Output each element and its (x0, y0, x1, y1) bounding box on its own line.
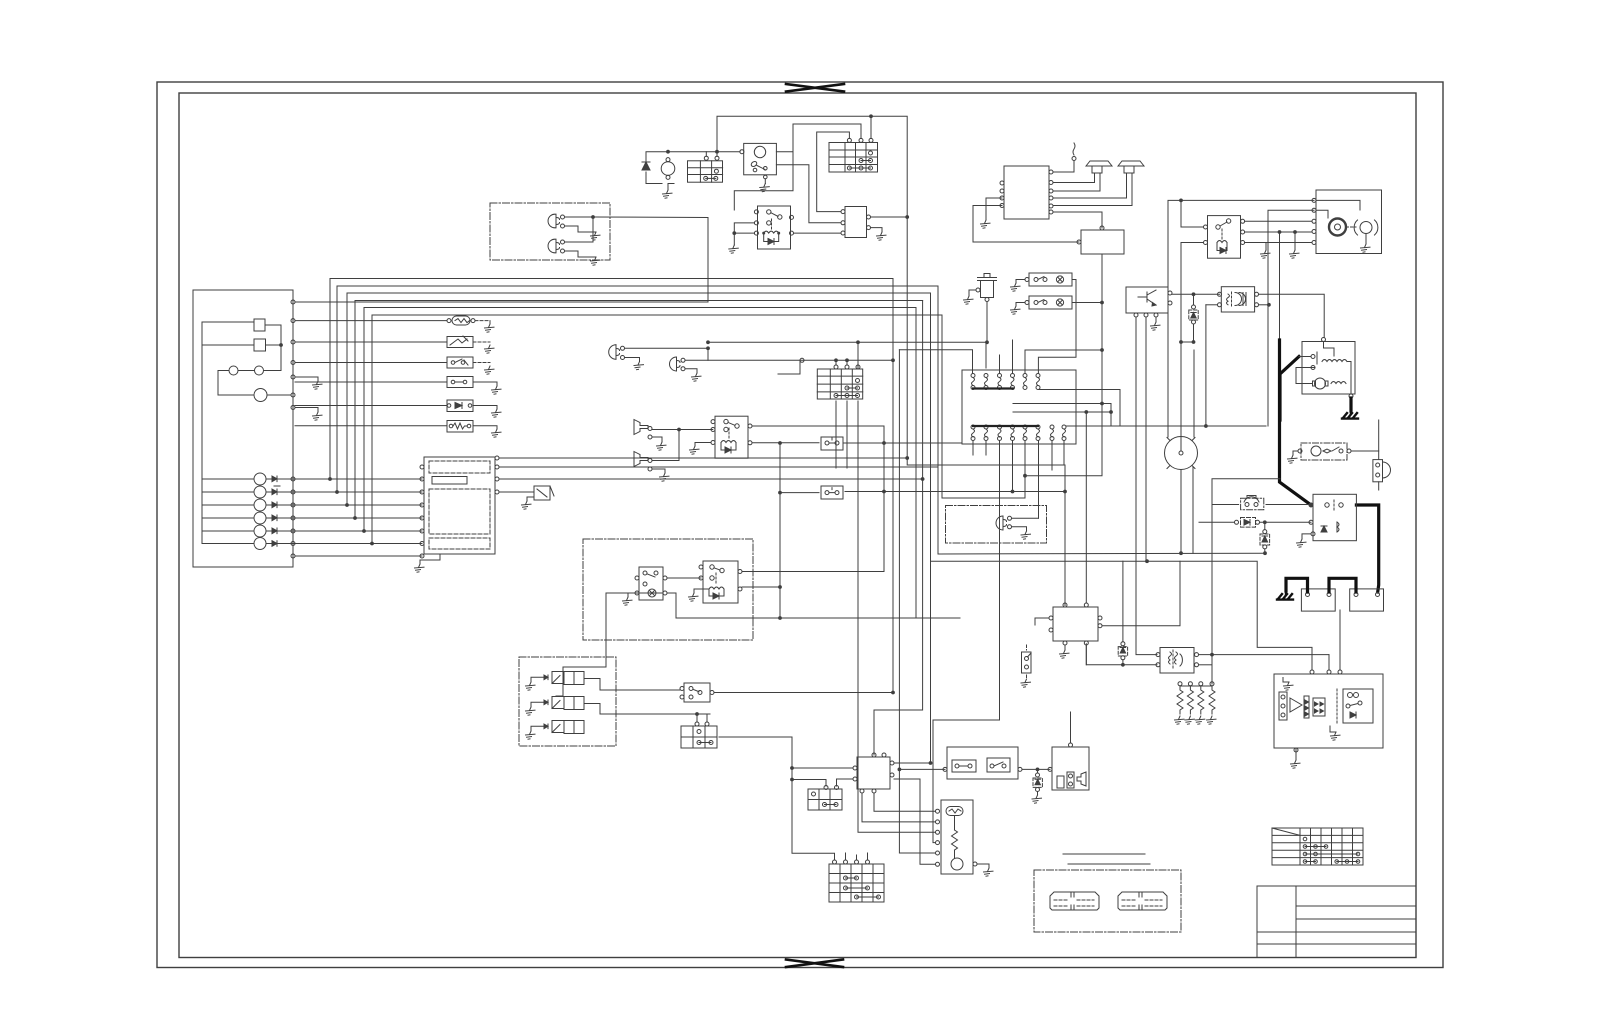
wire relay B out2 (752, 442, 819, 444)
wire trunk mid3 (930, 293, 932, 763)
wire fuse pin1 drop (705, 152, 707, 157)
wire bundle verticals (330, 279, 372, 544)
spark diode vertical (1118, 561, 1127, 665)
ground tail lamp (1021, 531, 1031, 539)
node flasher (779, 617, 782, 620)
wire CDI2 right (1102, 561, 1180, 626)
wire relay C pin left2 (1181, 243, 1204, 451)
fuse box A (688, 156, 723, 182)
wire tail lamp gnd (1012, 527, 1027, 531)
wire CDI A out1 (871, 216, 908, 218)
wire L2 drop (707, 348, 709, 360)
ground H1 (657, 442, 667, 450)
oil switch (1022, 645, 1032, 679)
wire switch out 1 (776, 151, 793, 153)
motor M1 (661, 162, 675, 176)
node pin5 link (1101, 349, 1104, 352)
solenoid unit 3 (531, 721, 584, 734)
connector plug 2 (1118, 892, 1167, 910)
diode D1 (642, 162, 650, 170)
wire horn button right (1266, 504, 1311, 506)
wire magneto pin5 link (1025, 350, 1102, 374)
fuse B2 (821, 486, 843, 499)
wire coil unit gnd (977, 864, 989, 868)
ground L2 (692, 373, 702, 381)
wire CDI B pin2 (837, 779, 854, 786)
wire conn E pin1 (835, 360, 837, 365)
wire magneto drop1 (857, 342, 859, 368)
fuse legend table (1272, 828, 1363, 865)
wire fuse B2 feed (780, 492, 819, 494)
ground CDI2 (1060, 650, 1070, 658)
node L2 join (892, 359, 895, 362)
wire L2 feed (685, 359, 893, 361)
warning lamp 1 (254, 473, 266, 485)
ground S1 (485, 366, 495, 374)
ignition coil box (1156, 648, 1199, 674)
warning lamp 5 (254, 525, 266, 537)
speaker SP2 (1118, 161, 1144, 206)
wire L2 gnd (685, 369, 697, 373)
ground relay B (690, 446, 700, 454)
wire tail long (938, 286, 1265, 554)
headlight box (490, 203, 610, 260)
node coil out (1211, 653, 1214, 656)
ground R1 (485, 345, 495, 353)
wire strip1 out (1038, 280, 1076, 374)
wire F2 right (473, 382, 497, 386)
wire unit gnd (1295, 748, 1297, 760)
wire meter lamp right (267, 394, 291, 396)
wire starter relay gnd (1293, 451, 1298, 455)
wire switch out 2 to CDI A pin2 (776, 165, 841, 223)
wire resistor feed (1211, 655, 1213, 684)
node fsw out (1036, 768, 1039, 771)
wire lamp feeds left (202, 479, 254, 544)
warning lamp 4 (254, 512, 266, 524)
wire CDI2 gnd (1064, 645, 1066, 650)
temp gauge square (254, 339, 266, 351)
wire solenoid out2 (584, 704, 616, 715)
wire magneto stub4 (1012, 340, 1014, 374)
meter panel box (193, 290, 293, 567)
ground solenoid 2 (526, 707, 536, 715)
battery (1350, 589, 1384, 611)
wire meter gnd1 (295, 377, 318, 381)
alternator box (1296, 338, 1355, 399)
wire cdi2 top vertical (1085, 412, 1087, 603)
ground CDI A (877, 232, 887, 240)
fuse F2 (447, 377, 473, 388)
wire gauge link (265, 325, 281, 370)
node gauge (280, 344, 283, 347)
wire tail lamp feed (1012, 517, 1039, 519)
node CDI B out (929, 762, 932, 765)
thick battery ground (1286, 578, 1308, 592)
wire strip2 out (1072, 302, 1102, 304)
wire plug diode link (1181, 341, 1194, 343)
magneto coil pins top row (971, 374, 1040, 390)
wire connector B drop (870, 116, 872, 138)
node cable top (1278, 231, 1281, 234)
ground resistor 2 (1185, 716, 1195, 724)
magneto coil pins bottom row (971, 425, 1066, 441)
wire strip1 gnd (1016, 280, 1025, 284)
resistor box R2 (447, 421, 473, 433)
wire F1 left (295, 320, 447, 322)
ground headlight HI (591, 232, 601, 240)
ground buzzer (522, 501, 532, 509)
ground meter 1 (313, 381, 323, 389)
ground oil sensor (964, 296, 974, 304)
cut mark top (786, 84, 844, 92)
resistor bank (1177, 682, 1215, 714)
ground radio (981, 220, 991, 228)
wire H2 gnd (652, 469, 665, 473)
meter lamp big (254, 389, 267, 402)
solenoid dashed box (519, 657, 616, 746)
wire L1 gnd (625, 358, 640, 362)
battery fuse box (1301, 589, 1335, 611)
wire D2 left (295, 405, 447, 407)
magneto connector box (962, 370, 1076, 444)
connector dashed box (1034, 870, 1181, 932)
node oil feed (857, 341, 860, 344)
node combo out3 (921, 478, 924, 481)
ground battery thick (1277, 592, 1293, 600)
pilot lamp pair (229, 366, 238, 375)
wire motor bottom (668, 184, 674, 191)
wire igniter out1 (1172, 293, 1220, 295)
wire ts relay out1 (742, 571, 884, 573)
radio unit (1000, 166, 1053, 219)
node branch (779, 442, 782, 445)
node combo out1 (906, 457, 909, 460)
warning lamp 3 (254, 499, 266, 511)
node regrect feed (791, 778, 794, 781)
wire F1 right dashed (475, 320, 490, 322)
wire net B2 to CDI A pin1 (817, 132, 850, 212)
start relay box (1309, 494, 1356, 540)
node cdi2 top (1085, 411, 1088, 414)
node branch2 (779, 491, 782, 494)
wire conn E pin2 (846, 360, 848, 365)
wire tail vertical (1064, 465, 1066, 606)
wire horn button left (1213, 504, 1239, 506)
unit gnd pin (1294, 748, 1298, 752)
wire msw pin3 relay (1245, 220, 1312, 222)
ignition relay C (1204, 216, 1245, 259)
ground F1 (485, 324, 495, 332)
ground starter relay (1288, 455, 1298, 463)
wire CDI2 left (1035, 618, 1049, 625)
meter internal bus (201, 322, 203, 544)
wire ts switch gnd (628, 593, 635, 597)
bus bar bottom thick (973, 425, 1038, 427)
border frame inner (179, 93, 1416, 958)
antenna (1072, 143, 1076, 172)
node plug diode (1192, 341, 1195, 344)
wire ts relay out2 (742, 586, 780, 588)
node magneto link (1110, 411, 1113, 414)
wire aux vertical (1025, 254, 1102, 476)
connector E (817, 365, 862, 399)
wire R2 right (473, 426, 497, 429)
node igniter branch (1180, 341, 1183, 344)
wire combo out4 buzzer (499, 491, 534, 493)
node conn E pin2 (846, 359, 849, 362)
wire relay B out1 (752, 426, 884, 572)
wire plug diode drop (1193, 324, 1195, 342)
pressure switch PS (680, 683, 714, 702)
wire buzzer gnd (527, 497, 534, 501)
regulator rectifier (829, 853, 884, 902)
ground meter 2 (313, 412, 323, 420)
position lamp L2 (670, 357, 686, 371)
wire conn E stubs (836, 401, 847, 468)
wire SP2 a (1053, 197, 1127, 199)
thick battery link (1329, 578, 1356, 592)
ground ts relay (689, 593, 699, 601)
wire msw pin5 relay (1245, 242, 1312, 244)
wire coil B link (1206, 304, 1218, 306)
wire brake long (1147, 561, 1312, 670)
wire H1 gnd (652, 437, 662, 442)
node coil in2 (1122, 663, 1125, 666)
wire msw pin2 (1268, 210, 1314, 426)
wire lamp branch (778, 360, 800, 374)
wire trunk mid2 (899, 350, 935, 853)
wire combo out1 (499, 457, 907, 459)
wire oil sensor drop (986, 302, 988, 343)
wire H1 feed (652, 429, 713, 431)
main switch assembly (1312, 190, 1382, 254)
wire starter relay out (1351, 451, 1379, 459)
node J1 (870, 115, 873, 118)
wire regrect feed (792, 780, 835, 861)
wire radio to amp (1053, 212, 1102, 228)
horn H2 (634, 452, 652, 472)
ground unit (1291, 760, 1301, 768)
ground igniter (1151, 322, 1161, 330)
wire headlight HI gnd (565, 226, 597, 232)
wire headlight link (565, 217, 594, 242)
headlight LO (548, 239, 564, 253)
speaker unit box (1048, 738, 1089, 790)
wire CDI A out2 gnd (871, 228, 883, 232)
connector D (808, 786, 842, 811)
ground oil switch (1021, 679, 1031, 687)
wire combo out2 (499, 467, 938, 554)
ground H2 (660, 473, 670, 481)
wire L1 feed (625, 347, 709, 349)
node tail junction (1064, 490, 1067, 493)
thick ground starter (1349, 398, 1352, 411)
horn H1 (634, 420, 652, 440)
node ts out2 (779, 586, 782, 589)
node charge top (667, 150, 670, 153)
wire unit feed3 (1339, 610, 1341, 670)
wire relay A out to CDI A (794, 232, 842, 234)
wire distributor feed1 (1168, 200, 1314, 437)
starter relay dashed (1298, 443, 1351, 460)
wire coil out1 (1199, 654, 1330, 656)
turn signal relay box (699, 561, 742, 603)
ground main switch assy (1361, 244, 1371, 252)
wire relay B gnd (695, 443, 711, 447)
warning lamp 6 (254, 538, 266, 550)
ground starter thick (1342, 411, 1358, 419)
node J2 (906, 216, 909, 219)
ground main switch (760, 184, 770, 192)
wire alt left pin (1299, 356, 1311, 358)
wire magneto out8 (1066, 425, 1266, 427)
node start feed (1310, 504, 1313, 507)
wire R1 left (295, 341, 447, 343)
wire headlight LO gnd (565, 251, 597, 257)
fuse switch box (943, 747, 1022, 779)
wire aux feed (942, 315, 1025, 498)
wire conn E drop3 (858, 401, 936, 832)
ground msw B (1290, 250, 1300, 258)
wire CDI B drops (862, 793, 936, 822)
kill switch strip 2 (1025, 296, 1072, 309)
wire H2 feed (652, 430, 679, 461)
node relay gnd (733, 232, 736, 235)
wire relay feed vertical (1212, 479, 1280, 655)
amp box (1077, 226, 1124, 254)
wire lamp pair (238, 370, 255, 372)
plug diode (1189, 305, 1198, 324)
diode box D2 (447, 400, 473, 412)
wire radio loop (973, 206, 1079, 243)
ignition coil B (1218, 287, 1259, 312)
wire strip2 gnd (1016, 303, 1025, 307)
wire lamp pair left (218, 371, 229, 383)
wire oil feed long (708, 342, 986, 368)
node igniter out1 (1192, 293, 1195, 296)
wire starter relay up (1378, 420, 1380, 451)
CDI B box (853, 753, 894, 793)
node oil feed start (707, 341, 710, 344)
node coil B feed (1205, 425, 1208, 428)
wire brake left (931, 560, 1148, 562)
border frame outer (157, 82, 1443, 968)
node oil sensor (986, 341, 989, 344)
fuse F1 oval (447, 316, 475, 325)
horn button (1241, 496, 1264, 510)
wire relay C pin left1 (1181, 200, 1204, 227)
igniter box (1126, 287, 1172, 317)
wire magneto link3 (1013, 411, 1111, 413)
position lamp L1 (609, 345, 625, 360)
thick battery cable down (1280, 232, 1312, 505)
ground solenoid 1 (526, 682, 536, 690)
wire clutch diode right (1260, 521, 1312, 523)
wire SP1 a (1053, 182, 1095, 184)
wire magneto link1 (1038, 390, 1120, 427)
wire ts link (667, 577, 701, 579)
wire oil sensor gnd (969, 290, 976, 296)
wire conn D link (792, 768, 826, 786)
wire PS feed (616, 689, 680, 691)
wire start relay gnd (1302, 534, 1311, 539)
wire combo out3 (499, 478, 923, 480)
wire trunk mid1 (892, 279, 894, 693)
wire charge loop bottom (646, 172, 662, 184)
wire fuel gauge (202, 321, 254, 323)
kill switch strip 1 (1025, 273, 1072, 286)
node fsw feed (898, 768, 901, 771)
wire trunk mid4 (874, 301, 923, 756)
wire tail feed long (845, 491, 1065, 493)
speaker SP1 (1086, 161, 1112, 191)
wire temp gauge (202, 344, 254, 346)
wire magneto bottom drops (973, 441, 1064, 519)
ground stub B (1294, 232, 1296, 250)
ground resistor 1 (1175, 716, 1185, 724)
distributor (1165, 437, 1198, 474)
wire magneto drop3 (933, 455, 1000, 843)
node headlight J (592, 216, 595, 219)
node tail mid (883, 490, 886, 493)
rheostat R1 (447, 336, 473, 348)
bus bar top thick (973, 387, 1013, 389)
wire conn C feed (616, 713, 710, 715)
wire SP2 b (1053, 205, 1132, 207)
wire distributor feed2 (1193, 350, 1195, 437)
wire distributor bottom1 (1180, 471, 1182, 554)
node strip out (1101, 301, 1104, 304)
CDI unit A (841, 207, 871, 238)
wire coil B out2 (1259, 304, 1269, 306)
node bundle joints (329, 478, 374, 545)
node tail feed (1011, 490, 1014, 493)
ground start relay (1297, 539, 1307, 547)
starter bracket (1373, 460, 1391, 482)
ground headlight LO (591, 257, 601, 265)
ground resistor 4 (1207, 716, 1217, 724)
wire battery feed top (717, 116, 871, 156)
wire magneto link v (1110, 404, 1112, 427)
wire charge loop top (646, 152, 740, 162)
node conn C (696, 713, 699, 716)
turn signal switch box (635, 567, 667, 600)
ground motor (663, 190, 673, 198)
wire CDI B left (792, 767, 853, 769)
wire R1 right dashed (473, 341, 490, 343)
check diode (1033, 769, 1042, 795)
wire CDI2 out (1085, 645, 1087, 665)
harness lines (1063, 853, 1145, 855)
wire combo gnd (420, 554, 440, 564)
turn signal dashed box (583, 539, 753, 640)
node CDI B left (791, 767, 794, 770)
node brake (1146, 560, 1149, 563)
node L1 feed (707, 347, 710, 350)
wire F1 gnd drop (489, 321, 491, 324)
title block (1257, 886, 1416, 958)
oil tank sensor (976, 274, 997, 302)
wire coil in2 (1086, 644, 1157, 665)
wire fuse B1 out (843, 442, 962, 444)
wire switch ground (764, 179, 766, 184)
wire S1 left (295, 362, 447, 364)
lamp terminal (800, 358, 804, 362)
wire magneto stub3 (999, 355, 1001, 374)
headlight HI (548, 214, 564, 228)
wire magneto pin1 link (899, 350, 972, 374)
